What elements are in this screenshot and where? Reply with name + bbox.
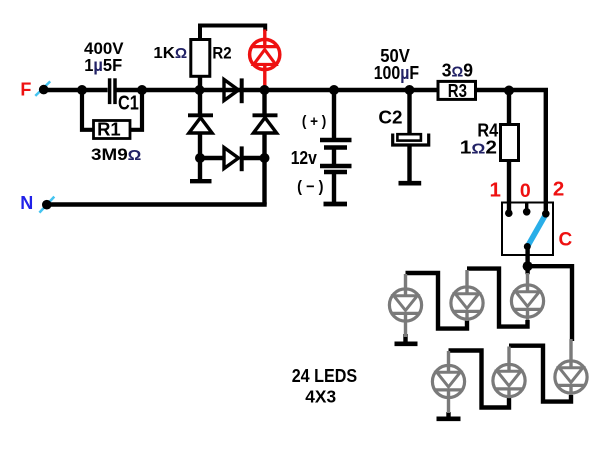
wire LED6 to LED5 link [509,346,571,402]
svg-text:C: C [559,230,573,251]
wire bridge left to terminal bar [198,158,202,179]
diode D1 top (bridge) [224,78,242,103]
LED LD6 (gray) [555,339,587,395]
wire R2 top to red LED [200,26,265,77]
resistor R4 box [501,125,519,161]
LED LD2 (gray) [451,270,483,321]
svg-text:R2: R2 [212,44,231,63]
junction dot below switch [523,261,533,271]
junction dot red LED bottom [260,85,270,95]
svg-text:3Ω9: 3Ω9 [442,61,473,81]
wire bridge output down to N line [262,158,266,205]
LED LD1 (gray) [389,274,421,337]
svg-text:3M9Ω: 3M9Ω [91,145,141,164]
terminal bar below LED4 [437,416,461,421]
junction dot battery branch [329,85,339,95]
connector slash at N (cyan) [39,197,54,213]
svg-text:R1: R1 [97,119,121,139]
svg-text:N: N [20,193,33,213]
wire LED1 cathode stub [403,334,407,342]
junction dot C2 branch [405,85,415,95]
wire stub junction to LED3 [525,266,529,274]
terminal bar below LED1 [395,341,418,346]
diode D2 left vertical (bridge) [188,115,213,133]
wire bridge right branch lower [262,133,266,158]
wire bridge bottom right segment [242,156,265,160]
svg-text:1µ5F: 1µ5F [84,55,122,75]
switch terminal dot 0 [523,208,531,216]
svg-text:C2: C2 [378,107,402,127]
wire main bus C1 to R3 [114,88,439,92]
junction dot bridge bottom left [195,153,205,163]
junction dot C1 right [137,85,147,95]
svg-text:( − ): ( − ) [297,179,323,196]
switch lever (cyan) to position 2 [528,217,545,246]
switch terminal dot 1 [505,209,513,217]
svg-text:12v: 12v [291,147,318,168]
resistor R1 box [94,121,131,139]
switch common dot C [524,243,531,250]
svg-text:1: 1 [489,178,500,201]
switch box S1 [502,203,553,256]
LED D5 red indicator [250,30,280,89]
wire switch common down [525,246,529,266]
svg-text:R3: R3 [448,81,467,101]
svg-text:1Ω2: 1Ω2 [460,137,497,157]
node N terminal dot [42,200,52,210]
svg-text:1KΩ: 1KΩ [153,45,187,62]
wire bridge left branch lower [198,133,202,158]
wire bridge bottom left segment [200,156,223,160]
junction dot R2 bottom [195,85,205,95]
node F terminal dot [39,85,49,95]
junction dot bridge bottom right [260,153,270,163]
svg-text:24 LEDS: 24 LEDS [292,366,357,386]
wire R4 to switch terminal 1 [507,161,511,212]
LED LD4 (gray) [432,351,464,413]
svg-text:C1: C1 [118,93,139,115]
svg-text:( + ): ( + ) [302,114,327,130]
svg-text:2: 2 [553,178,564,201]
terminal bar bridge negative [190,179,212,183]
junction dot C1 left [77,85,87,95]
wire N line [47,202,267,206]
wire LED5 to LED4 link [449,351,510,408]
wire bridge left branch upper [198,90,202,114]
wire R3 to switch terminal 2 [474,90,546,212]
wire R1 parallel branch right [130,88,143,130]
switch terminal 2 stub [544,203,548,213]
wire LED3 to LED2 link [467,269,528,327]
svg-text:4X3: 4X3 [305,386,336,406]
capacitor C1 plates [110,78,115,104]
wire common junction to right column [528,266,572,341]
wire R4 branch upper [507,90,511,125]
svg-text:0: 0 [520,180,531,202]
LED LD3 (gray) [511,273,543,320]
wire R2 bottom stub [198,74,202,90]
resistor R2 box [191,40,210,77]
wire LED2 to LED1 link [406,273,468,329]
junction dot R4 branch [504,86,514,96]
switch terminal 1 stub [507,203,511,212]
switch terminal dot 2 [542,210,550,218]
wire battery branch top [332,90,336,138]
diode D3 bottom (bridge) [224,146,242,171]
wire LED4 cathode stub [446,412,450,417]
battery B1 12v [320,140,352,204]
switch terminal 0 stub [525,203,528,211]
resistor R3 box [438,81,476,99]
diode D4 right vertical (bridge) [253,115,278,133]
wire C2 branch top [407,90,411,135]
connector slash at F (cyan) [35,81,50,96]
wire bridge right branch upper [262,90,266,114]
wire R1 parallel branch left [82,88,94,130]
svg-text:F: F [20,79,31,99]
wire F input to C1 [44,88,108,92]
capacitor C2 electrolytic [393,134,429,184]
LED LD5 (gray) [493,347,525,399]
svg-text:100µF: 100µF [374,63,419,83]
